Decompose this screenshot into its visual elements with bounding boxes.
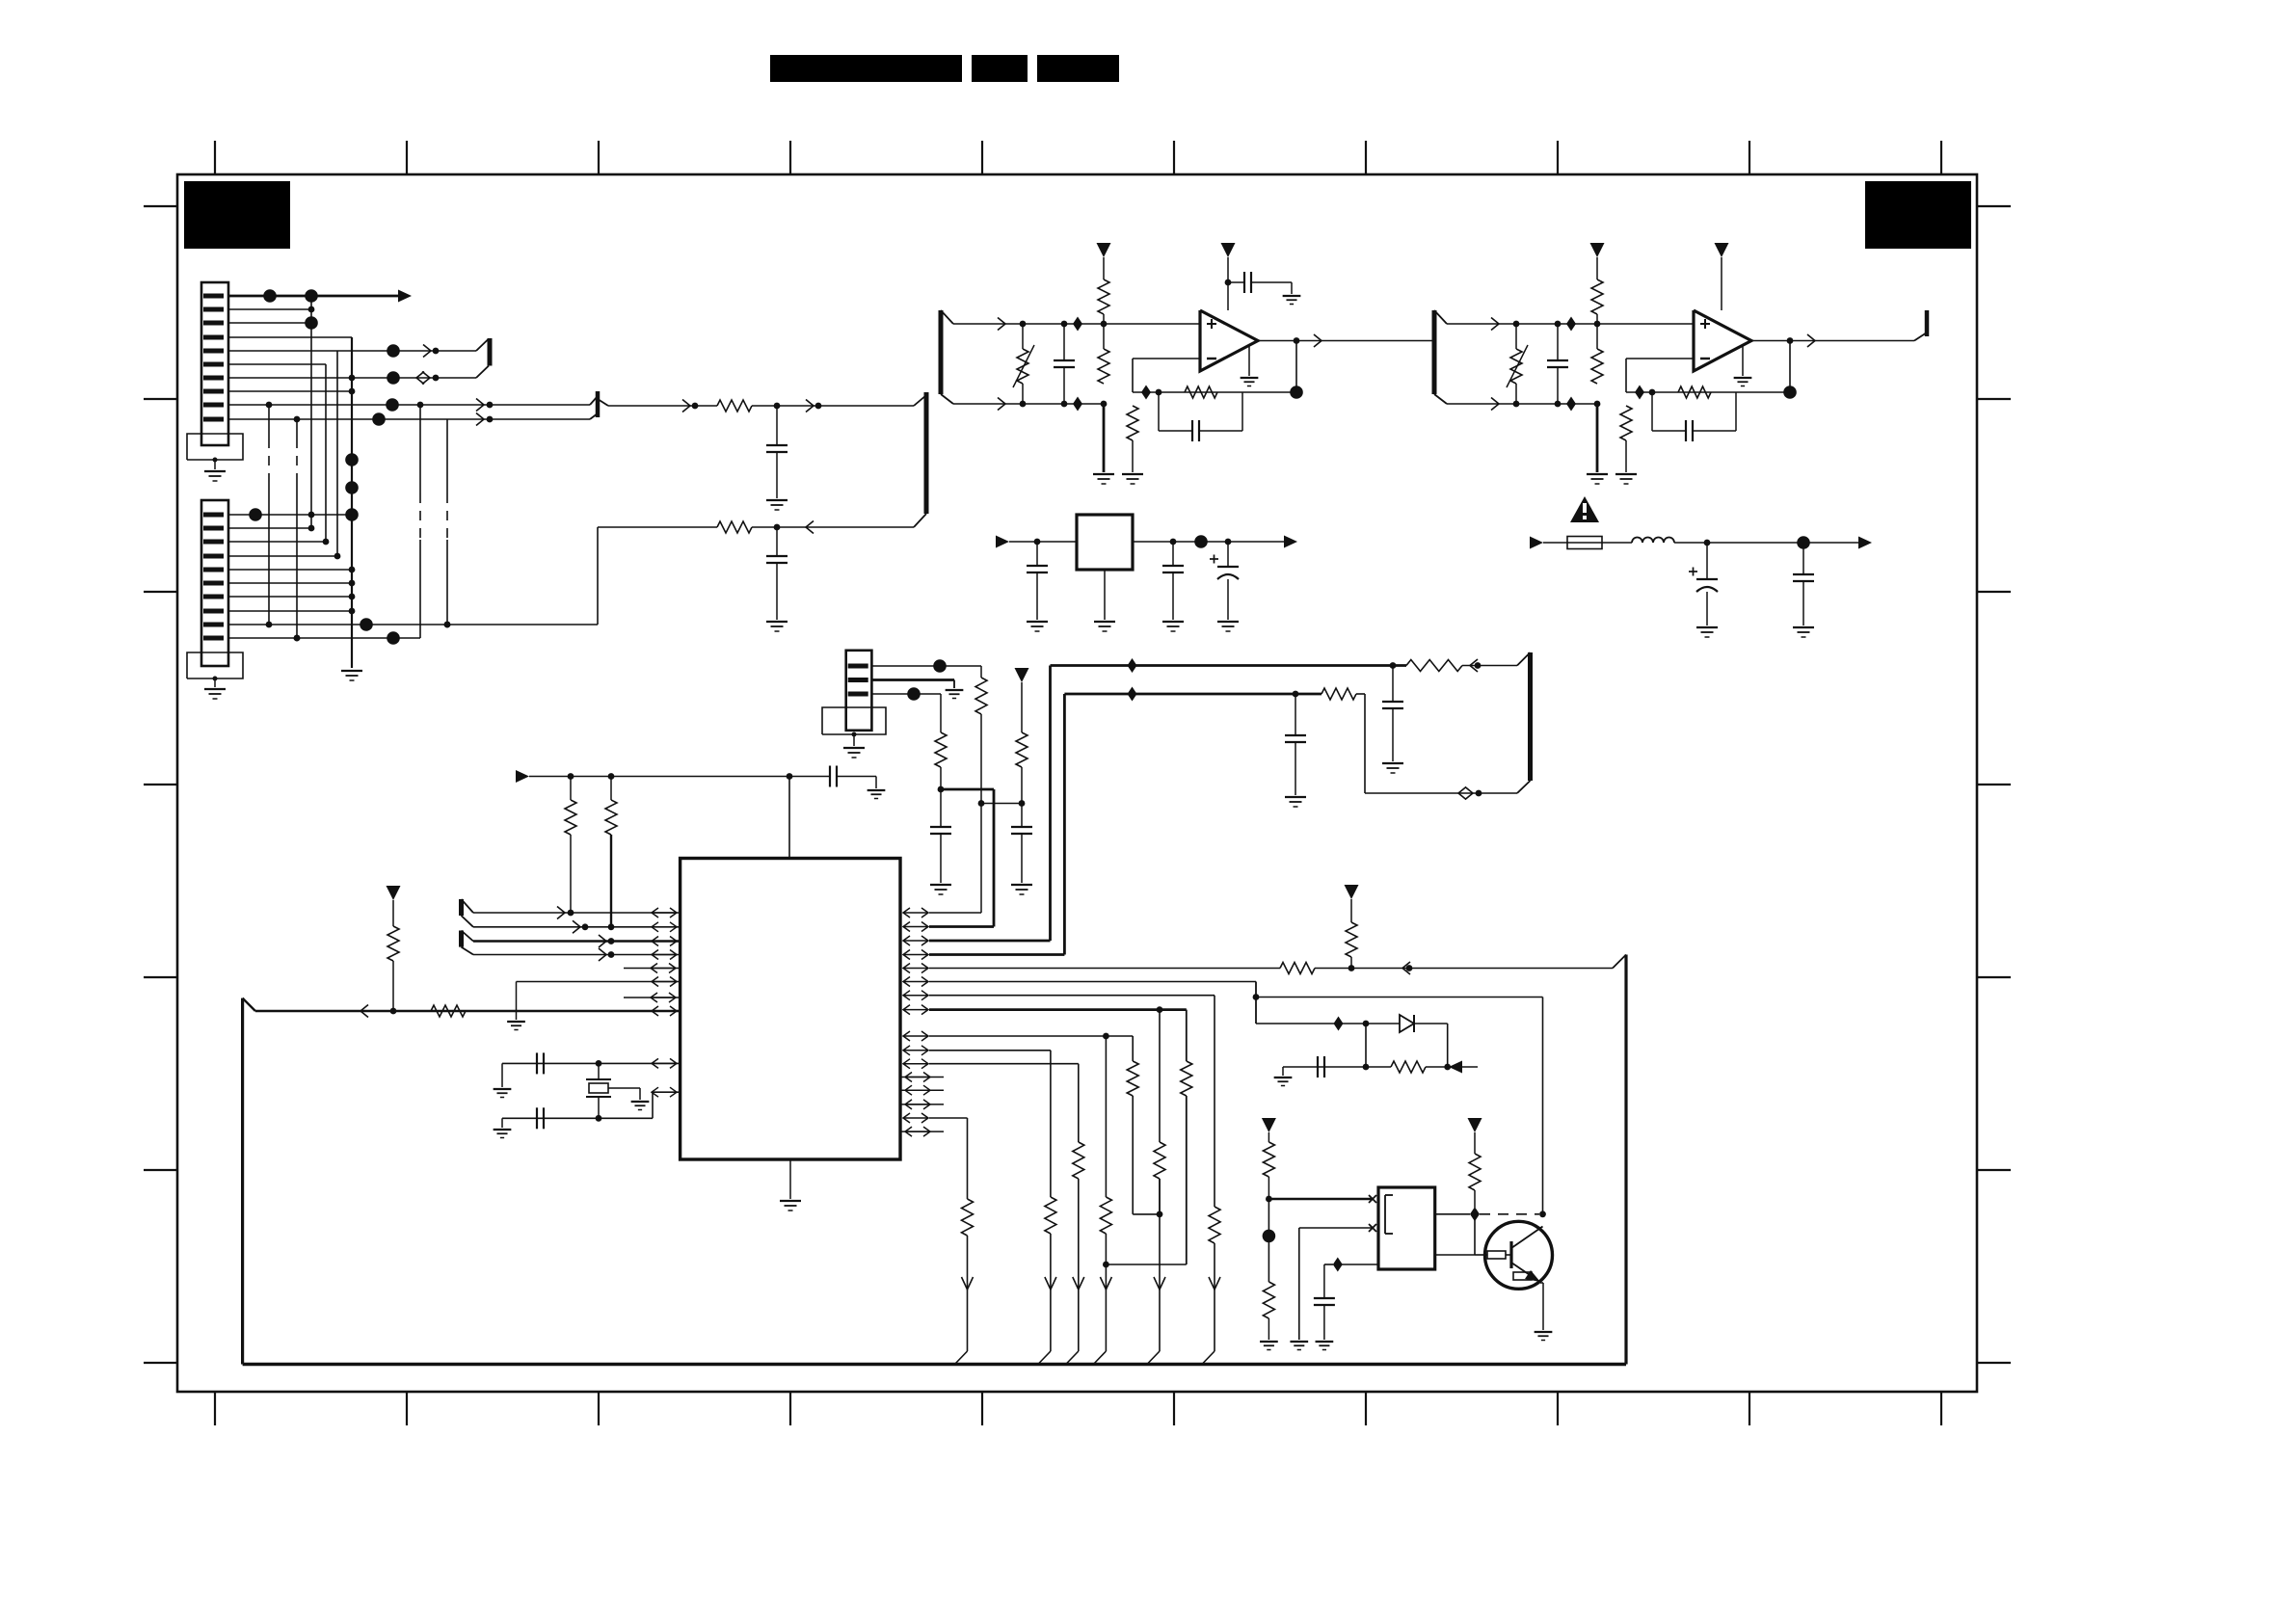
connector J1 <box>201 282 228 445</box>
resistor R26 <box>1045 1197 1056 1234</box>
pin marker row5L stub <box>624 968 681 970</box>
wire row8L <box>255 1010 681 1013</box>
wire dashed vertical f <box>296 419 298 439</box>
capacitor C1 <box>776 406 778 445</box>
resistor R33 <box>1474 1132 1476 1154</box>
capacitor C17 <box>829 766 831 787</box>
wire row3R <box>929 940 1051 943</box>
wire V4 to U3 <box>1721 257 1722 310</box>
arrow into node <box>1449 1061 1462 1074</box>
arrow on return line <box>806 521 814 534</box>
resistor R29 <box>1154 1142 1165 1179</box>
resistor R27 <box>1073 1142 1084 1179</box>
variable resistor RV2 <box>1515 324 1517 349</box>
capacitor C8 electrolytic <box>1227 542 1229 567</box>
fuse FU1 <box>1567 542 1602 544</box>
wire F1 lower <box>953 403 1104 405</box>
wire J1 pin10 <box>228 418 590 420</box>
capacitor C19 <box>536 1107 538 1129</box>
frame tick marks right <box>1977 205 2011 207</box>
arrow F3 upper <box>1491 318 1499 331</box>
ground C4 <box>1283 295 1301 297</box>
wire V2 to U1 <box>1227 257 1229 310</box>
off-page terminal bar <box>1925 310 1930 336</box>
capacitor C21 <box>1323 1264 1325 1298</box>
wire R1 to flag <box>752 405 914 407</box>
wire J2 pin9 <box>228 624 598 625</box>
wire F6 line2 <box>473 954 681 956</box>
wire diode corner <box>1447 1024 1449 1067</box>
capacitor C10 feedback <box>1651 392 1653 431</box>
transistor Q1 <box>1485 1221 1553 1289</box>
wire J2 pin3 <box>228 541 326 543</box>
arrow regulator output <box>1284 536 1297 548</box>
ground C18 <box>494 1088 512 1090</box>
wire F3 upper to op-amp <box>1447 323 1694 325</box>
connector J3 <box>846 651 872 731</box>
ground under J2 <box>204 688 226 690</box>
wire J1 pin7 <box>228 377 476 379</box>
wire row2R <box>929 925 994 928</box>
connector J1 shield bracket <box>187 434 243 460</box>
wire R29 to bus <box>1159 1179 1161 1351</box>
inductor L1 <box>1632 538 1674 544</box>
arrow F6 line2 <box>599 948 606 961</box>
junction diamond upper <box>1073 317 1082 332</box>
wire U3 output <box>1751 340 1914 342</box>
pin marker row8L <box>652 1010 677 1012</box>
capacitor C4 <box>1228 281 1244 283</box>
resistor R12 <box>1021 682 1023 732</box>
capacitor C2 <box>776 527 778 556</box>
ground C8 <box>1217 621 1239 623</box>
wire R4 to ground <box>1103 404 1106 472</box>
ground C21 <box>1316 1341 1334 1343</box>
wire J3 pin2 ground <box>871 678 954 681</box>
resistor R21 <box>1350 899 1352 922</box>
driver IC U5 <box>1378 1187 1435 1269</box>
corner label box top-left <box>184 181 290 249</box>
wire to fuse <box>1543 542 1567 544</box>
op-amp U1 <box>1200 310 1258 371</box>
pin marker row5R <box>903 968 928 970</box>
op-amp U3 <box>1694 310 1751 371</box>
wire J2 pin4 <box>228 555 337 557</box>
wire row10L <box>653 1091 681 1093</box>
wire F3 lower <box>1447 403 1597 405</box>
pin marker row14R stub <box>900 1104 944 1105</box>
wire R31 node <box>1268 1199 1269 1282</box>
off-page flag F3 <box>1432 310 1437 394</box>
ground R8 <box>1587 473 1608 475</box>
arrow pair J1 pin7 <box>416 372 424 385</box>
resistor R24 <box>1127 1061 1138 1096</box>
ground Q1 emitter <box>1535 1331 1553 1333</box>
arrow F3 lower <box>1491 398 1499 411</box>
crystal X1 <box>598 1063 600 1079</box>
ground C13 <box>1011 884 1032 886</box>
arrow regulator input <box>996 536 1009 548</box>
supply arrow V6 <box>387 886 401 900</box>
wire return to J2 <box>598 526 717 528</box>
pin marker row6L <box>652 981 677 983</box>
resistor R11 <box>980 666 982 678</box>
wire diamond to driver <box>1342 1264 1378 1265</box>
resistor R15 <box>1322 688 1356 700</box>
wire feedback node <box>1133 391 1296 393</box>
wire F1 upper to op-amp <box>953 323 1200 325</box>
wire U1 output <box>1258 340 1432 342</box>
resistor R3 <box>1103 257 1105 279</box>
pin marker row15R <box>903 1117 928 1119</box>
arrow top rail input <box>516 770 529 783</box>
ground pin2 net <box>1290 1341 1308 1343</box>
resistor R14 <box>1406 660 1462 672</box>
arrow row5R <box>1402 962 1410 974</box>
wire R27 to bus <box>1078 1179 1080 1351</box>
off-page flag F6 <box>459 931 464 947</box>
wire U1 minus input <box>1133 358 1200 359</box>
wire C19 to ground <box>501 1118 503 1128</box>
arrow F1 upper <box>998 318 1005 331</box>
wire F5 line2 <box>473 926 681 928</box>
arrow to flag <box>806 400 814 412</box>
capacitor C12 <box>1802 543 1804 574</box>
wire dashed collector link <box>1480 1213 1539 1215</box>
junction diamond lower 2 <box>1566 397 1576 412</box>
resistor R6 <box>1127 406 1138 440</box>
pin marker row7L stub <box>624 997 681 998</box>
wire driver output <box>1435 1213 1470 1215</box>
wire row9R drop <box>1132 1036 1134 1061</box>
ground C20 <box>1274 1077 1293 1078</box>
wire row15R <box>929 1117 968 1119</box>
pin mark x2 <box>1369 1224 1376 1232</box>
wire row6L ground net <box>517 981 681 983</box>
ground row6L <box>507 1021 525 1023</box>
junction diamond row4 <box>1128 687 1137 702</box>
ground crystal <box>631 1101 650 1103</box>
junction diamond diode net <box>1334 1017 1344 1031</box>
junction diamond feedback 2 <box>1635 386 1644 400</box>
ground regulator <box>1094 621 1115 623</box>
capacitor C9 <box>1557 324 1559 360</box>
capacitor C3 <box>1063 324 1065 360</box>
capacitor C7 <box>1172 542 1174 566</box>
wire driver pin1 <box>1268 1198 1373 1201</box>
ground U3 <box>1734 377 1752 379</box>
wire regulator input <box>1009 541 1077 543</box>
pin marker row3L <box>652 941 677 943</box>
ground C17 <box>868 789 886 791</box>
wire J1 pin3 <box>228 322 311 324</box>
ground C14 <box>930 884 951 886</box>
wire dashed vertical e <box>268 405 270 439</box>
resistor R31 <box>1268 1132 1269 1142</box>
ground U1 <box>1241 377 1259 379</box>
resistor R30 <box>1209 1207 1220 1243</box>
capacitor C11 electrolytic <box>1706 543 1708 579</box>
off-page flag F5 <box>459 899 464 916</box>
arrow row8L <box>360 1005 368 1018</box>
wire row10R <box>929 1050 1051 1051</box>
ground C1 <box>766 499 788 501</box>
frame border <box>177 174 1977 1392</box>
pin marker row1R <box>903 912 928 914</box>
wire IC row3 bus <box>1049 666 1052 942</box>
off-page flag F1 <box>939 310 944 394</box>
arrow F5 line2 <box>573 920 580 933</box>
wire base link <box>1474 1214 1476 1255</box>
title block bar 1 <box>770 55 962 82</box>
junction diamond feedback <box>1141 386 1151 400</box>
wire row1R <box>929 912 981 914</box>
wire row4R <box>929 953 1064 956</box>
wire regulator output <box>1133 541 1284 543</box>
capacitor C18 <box>536 1052 538 1074</box>
resistor R4 <box>1098 349 1109 384</box>
pin marker row12R stub <box>900 1077 944 1078</box>
wire J2 pin2 <box>228 527 311 529</box>
wire IC bottom pin <box>789 1159 791 1199</box>
resistor R23 <box>1181 1061 1192 1096</box>
wire R28 to bus <box>1105 1234 1107 1351</box>
junction diamond upper 2 <box>1566 317 1576 332</box>
pin marker row4L <box>652 954 677 956</box>
wire row8R drop <box>1186 1010 1188 1061</box>
ground R32 <box>1260 1341 1278 1343</box>
wire R26 to bus <box>1050 1234 1052 1351</box>
wire feedback node 2 <box>1626 391 1790 393</box>
supply arrow V8 <box>1262 1118 1276 1132</box>
ground J3 pin2 <box>946 689 964 691</box>
resistor R13 <box>940 694 942 732</box>
pin marker row8R <box>903 1009 928 1011</box>
wire R8 to ground <box>1596 404 1599 472</box>
pin marker row2L <box>652 926 677 928</box>
capacitor C6 <box>1036 542 1038 566</box>
arrow fuse line input <box>1530 537 1543 549</box>
wire F5 line1 <box>473 912 681 914</box>
capacitor C15 <box>1392 666 1394 703</box>
supply arrow V7 <box>1345 885 1359 899</box>
arrow U1 output <box>1314 334 1322 347</box>
voltage regulator U2 <box>1077 515 1133 570</box>
resistor R18 <box>431 1005 466 1017</box>
wire J3 pin1 net <box>871 665 981 667</box>
off-page flag F2 <box>924 392 929 514</box>
ground C15 <box>1382 762 1403 764</box>
enclosure left edge <box>241 998 244 1365</box>
wire IC row4 bus <box>1063 694 1066 955</box>
junction diamond base cap <box>1333 1258 1343 1272</box>
supply arrow V2 <box>1221 243 1236 257</box>
supply arrow V5 <box>1015 668 1029 682</box>
pin marker row9L <box>652 1062 677 1064</box>
resistor R20 <box>1280 963 1315 974</box>
wire J1 pin1 net <box>228 295 398 298</box>
variable resistor RV1 <box>1022 324 1024 349</box>
arrow power output <box>1858 537 1872 549</box>
wire J2 pin6 <box>228 582 352 584</box>
wire row11R <box>929 1063 1079 1065</box>
wire fuse to inductor <box>1602 542 1632 544</box>
ground R6 <box>1122 473 1143 475</box>
wire dashed vertical h <box>446 419 448 493</box>
wire row9R <box>929 1035 1133 1037</box>
frame tick marks bottom <box>214 1392 216 1425</box>
wire U1 ground stem <box>1248 346 1250 376</box>
wire matrix vertical c <box>336 351 338 556</box>
wire row5R <box>929 968 1280 970</box>
off-page flag F4 <box>1528 652 1533 781</box>
wire J2 bracket ground stem <box>214 678 216 687</box>
wire C18 to ground <box>501 1063 503 1087</box>
pin marker row1L <box>652 912 677 914</box>
wire dashed vertical g <box>419 405 421 493</box>
resistor R2 <box>717 521 752 533</box>
wire RC row <box>1283 1066 1391 1068</box>
wire J3 pin3 net <box>871 693 941 695</box>
ground C11 <box>1696 626 1718 628</box>
wire J2 pin5 <box>228 569 352 571</box>
wire regulator ground pin <box>1104 570 1106 620</box>
pin marker row10R <box>903 1050 928 1051</box>
wire link 819 to IC <box>941 788 994 791</box>
ground C6 <box>1027 621 1048 623</box>
frame tick marks top <box>214 141 216 174</box>
wire row5R to enclosure <box>1315 968 1613 970</box>
ground C19 <box>494 1129 512 1131</box>
pin marker row2R <box>903 926 928 928</box>
enclosure bottom bus <box>243 1363 1626 1367</box>
corner label box top-right <box>1865 181 1971 249</box>
wire J2 pin10 <box>228 637 420 639</box>
ground IC <box>780 1200 801 1202</box>
wire J1 pin6 <box>228 363 326 365</box>
wire F6 line1 <box>473 940 681 943</box>
wire J2 pin8 <box>228 610 352 612</box>
resistor R9 feedback <box>1678 386 1711 398</box>
wire J1 pin4 <box>228 336 352 338</box>
ground C7 <box>1162 621 1184 623</box>
capacitor C16 <box>1295 694 1296 735</box>
supply arrow V3 <box>1590 243 1605 257</box>
resistor R16 <box>570 777 572 801</box>
IC U4 <box>681 859 900 1160</box>
resistor R22 <box>1391 1061 1426 1073</box>
capacitor C20 <box>1317 1056 1319 1078</box>
wire R25 to bus <box>967 1236 969 1351</box>
diode D1 <box>1377 1023 1400 1024</box>
wire J3 bracket ground stem <box>853 734 855 746</box>
wire J1 pin9 <box>228 404 590 406</box>
resistor R8 <box>1591 349 1603 384</box>
supply arrow V4 <box>1715 243 1729 257</box>
wire row9L <box>502 1062 681 1064</box>
arrow J1 pin5 <box>423 345 431 358</box>
wire row8R <box>929 1008 1187 1011</box>
junction diamond driver out <box>1470 1207 1480 1221</box>
resistor R25 <box>962 1199 974 1236</box>
wire row7R <box>929 995 1215 997</box>
ground C2 <box>766 621 788 623</box>
ground R10 <box>1615 473 1637 475</box>
wire J2 pin7 <box>228 596 352 598</box>
title block bar 2 <box>972 55 1028 82</box>
wire collector branch <box>1256 997 1543 998</box>
ground R4 <box>1093 473 1114 475</box>
ground C16 <box>1285 796 1306 798</box>
pin marker row13R stub <box>900 1089 944 1091</box>
arrow U3 output <box>1807 334 1815 347</box>
capacitor C13 <box>1021 804 1023 828</box>
pin marker row7R <box>903 995 928 997</box>
wire diode net <box>1256 1023 1377 1024</box>
resistor R7 <box>1596 257 1598 279</box>
wire J1 pin5 <box>228 350 476 352</box>
enclosure right edge <box>1624 955 1627 1365</box>
ground C12 <box>1793 626 1814 628</box>
supply arrow V1 <box>1097 243 1111 257</box>
ground under J1 <box>204 470 226 472</box>
bus merge bar <box>596 391 601 417</box>
pin marker row11R <box>903 1063 928 1065</box>
resistor R32 <box>1263 1282 1274 1318</box>
arrow on merged line <box>682 400 690 412</box>
wire matrix vertical b <box>325 364 327 542</box>
pin marker row3R <box>903 940 928 942</box>
wire driver base out <box>1435 1254 1475 1256</box>
wire C20 ground stub <box>1282 1067 1284 1076</box>
arrow J1 pin9 <box>476 399 484 412</box>
pin marker row6R <box>903 981 928 983</box>
junction diamond row3 <box>1128 658 1137 673</box>
wire J1 pin8 <box>228 390 352 392</box>
capacitor C14 <box>940 789 942 827</box>
wire matrix vertical d <box>351 337 353 668</box>
arrow J1 pin1 <box>398 290 412 303</box>
resistor R28 <box>1100 1197 1111 1234</box>
wire U3 ground stem <box>1742 346 1744 376</box>
wire merged line <box>608 405 717 407</box>
supply arrow V9 <box>1468 1118 1482 1132</box>
wire R30 to bus <box>1214 1243 1215 1351</box>
wire link 840 <box>981 803 1022 805</box>
arrow J1 pin10 <box>476 413 484 426</box>
arrow row3 <box>1470 659 1478 672</box>
resistor R1 <box>717 400 752 412</box>
wire R15 corner <box>1356 693 1365 695</box>
connector J3 shield bracket <box>822 707 886 734</box>
connector J2 shield bracket <box>187 652 243 678</box>
wire driver pin2 net <box>1298 1228 1300 1340</box>
wire emitter <box>1540 1282 1543 1284</box>
wire top rail <box>529 776 830 778</box>
pin marker row10L <box>652 1091 677 1093</box>
resistor R5 feedback <box>1185 386 1217 398</box>
resistor R19 <box>392 900 394 926</box>
arrow pair row4 <box>1458 787 1466 800</box>
wire J2 pin1 <box>228 514 352 516</box>
wire U3 minus input <box>1626 358 1694 359</box>
off-page flag F7 <box>488 338 493 366</box>
connector J2 <box>201 500 228 666</box>
pin marker row4R <box>903 954 928 956</box>
wire IC top pin <box>788 777 790 859</box>
ground matrix bus <box>341 670 362 672</box>
frame tick marks left <box>144 205 177 207</box>
